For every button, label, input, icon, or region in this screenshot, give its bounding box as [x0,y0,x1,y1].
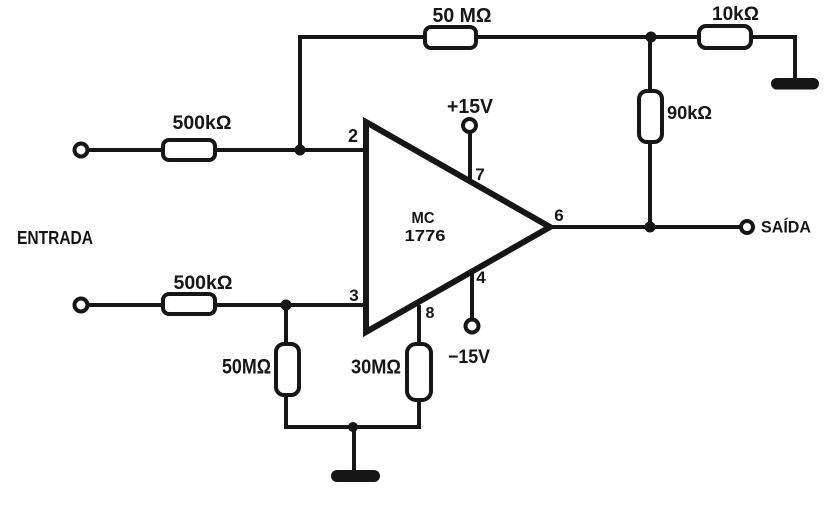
svg-text:50 MΩ: 50 MΩ [433,5,492,27]
node E (bottom ground junction) [348,422,358,432]
resistor R2 500kΩ (bottom input) [163,294,215,314]
resistor R4 90kΩ (vertical) [639,91,662,142]
terminal +15V [463,119,476,132]
svg-text:+15V: +15V [447,96,494,118]
resistor R6 50MΩ (vertical, to ground) [276,344,299,395]
svg-text:−15V: −15V [448,347,490,368]
wire: R4 down to output node C [648,142,652,227]
svg-text:SAÍDA: SAÍDA [761,218,811,237]
op-amp U1 MC1776 triangle [366,122,550,332]
terminal -15V [466,320,479,333]
output terminal J3 SAÍDA [741,221,753,233]
svg-text:ENTRADA: ENTRADA [17,228,93,248]
wire: R6 down to bottom rail [284,395,288,429]
wire: R1 to pin 2 [215,148,366,152]
wire: J1 to R1 [88,148,163,152]
svg-text:500kΩ: 500kΩ [173,113,232,134]
svg-text:50MΩ: 50MΩ [222,356,271,379]
wire: pin 8 down to R7 [417,305,421,344]
svg-text:500kΩ: 500kΩ [174,273,233,294]
svg-text:4: 4 [476,268,486,287]
wire: node E down to ground [352,427,356,470]
svg-text:6: 6 [554,206,563,225]
svg-text:10kΩ: 10kΩ [712,4,759,25]
wire: pin 7 to +15V terminal [468,132,472,180]
svg-text:90kΩ: 90kΩ [667,103,712,123]
input terminal J2 (bottom input) [75,299,88,312]
resistor R1 500kΩ (top input) [163,140,215,160]
input terminal J1 (top input) [75,144,88,157]
wire: node A up to feedback rail [298,35,302,150]
wire: node D down to R6 [284,305,288,344]
wire: op-amp pin 6 to SAÍDA terminal [550,225,740,229]
resistor R3 50MΩ (feedback) [425,27,476,48]
wire: pin 4 to -15V terminal [470,270,474,320]
wire: R2 to pin 3 [215,303,366,307]
svg-text:MC: MC [412,210,435,227]
node A (inverting input junction) [295,145,306,156]
wire: bottom rail [284,425,421,429]
svg-text:8: 8 [426,305,435,322]
svg-text:30MΩ: 30MΩ [351,357,401,379]
ground (top right) [771,78,819,90]
node B (top junction above 90k) [646,32,657,43]
svg-text:7: 7 [475,165,484,184]
wire: R5 to corner and down to ground [751,37,795,78]
wire: feedback rail left segment to R3 [298,35,425,39]
wire: R7 down to bottom rail [417,400,421,429]
node C (output junction) [645,222,656,233]
ground (bottom) [331,470,380,482]
resistor R7 30MΩ (vertical, pin 8) [407,344,431,400]
svg-text:3: 3 [349,286,358,305]
wire: J2 to R2 [88,303,163,307]
wire: node B down to R4 [648,37,652,91]
svg-text:2: 2 [348,126,358,146]
node D (non-inverting input junction) [281,300,292,311]
wire: node B to R5 [651,35,698,39]
wire: R3 to node B [476,35,651,39]
svg-text:1776: 1776 [405,228,446,245]
resistor R5 10kΩ (to ground, top right) [699,26,751,48]
